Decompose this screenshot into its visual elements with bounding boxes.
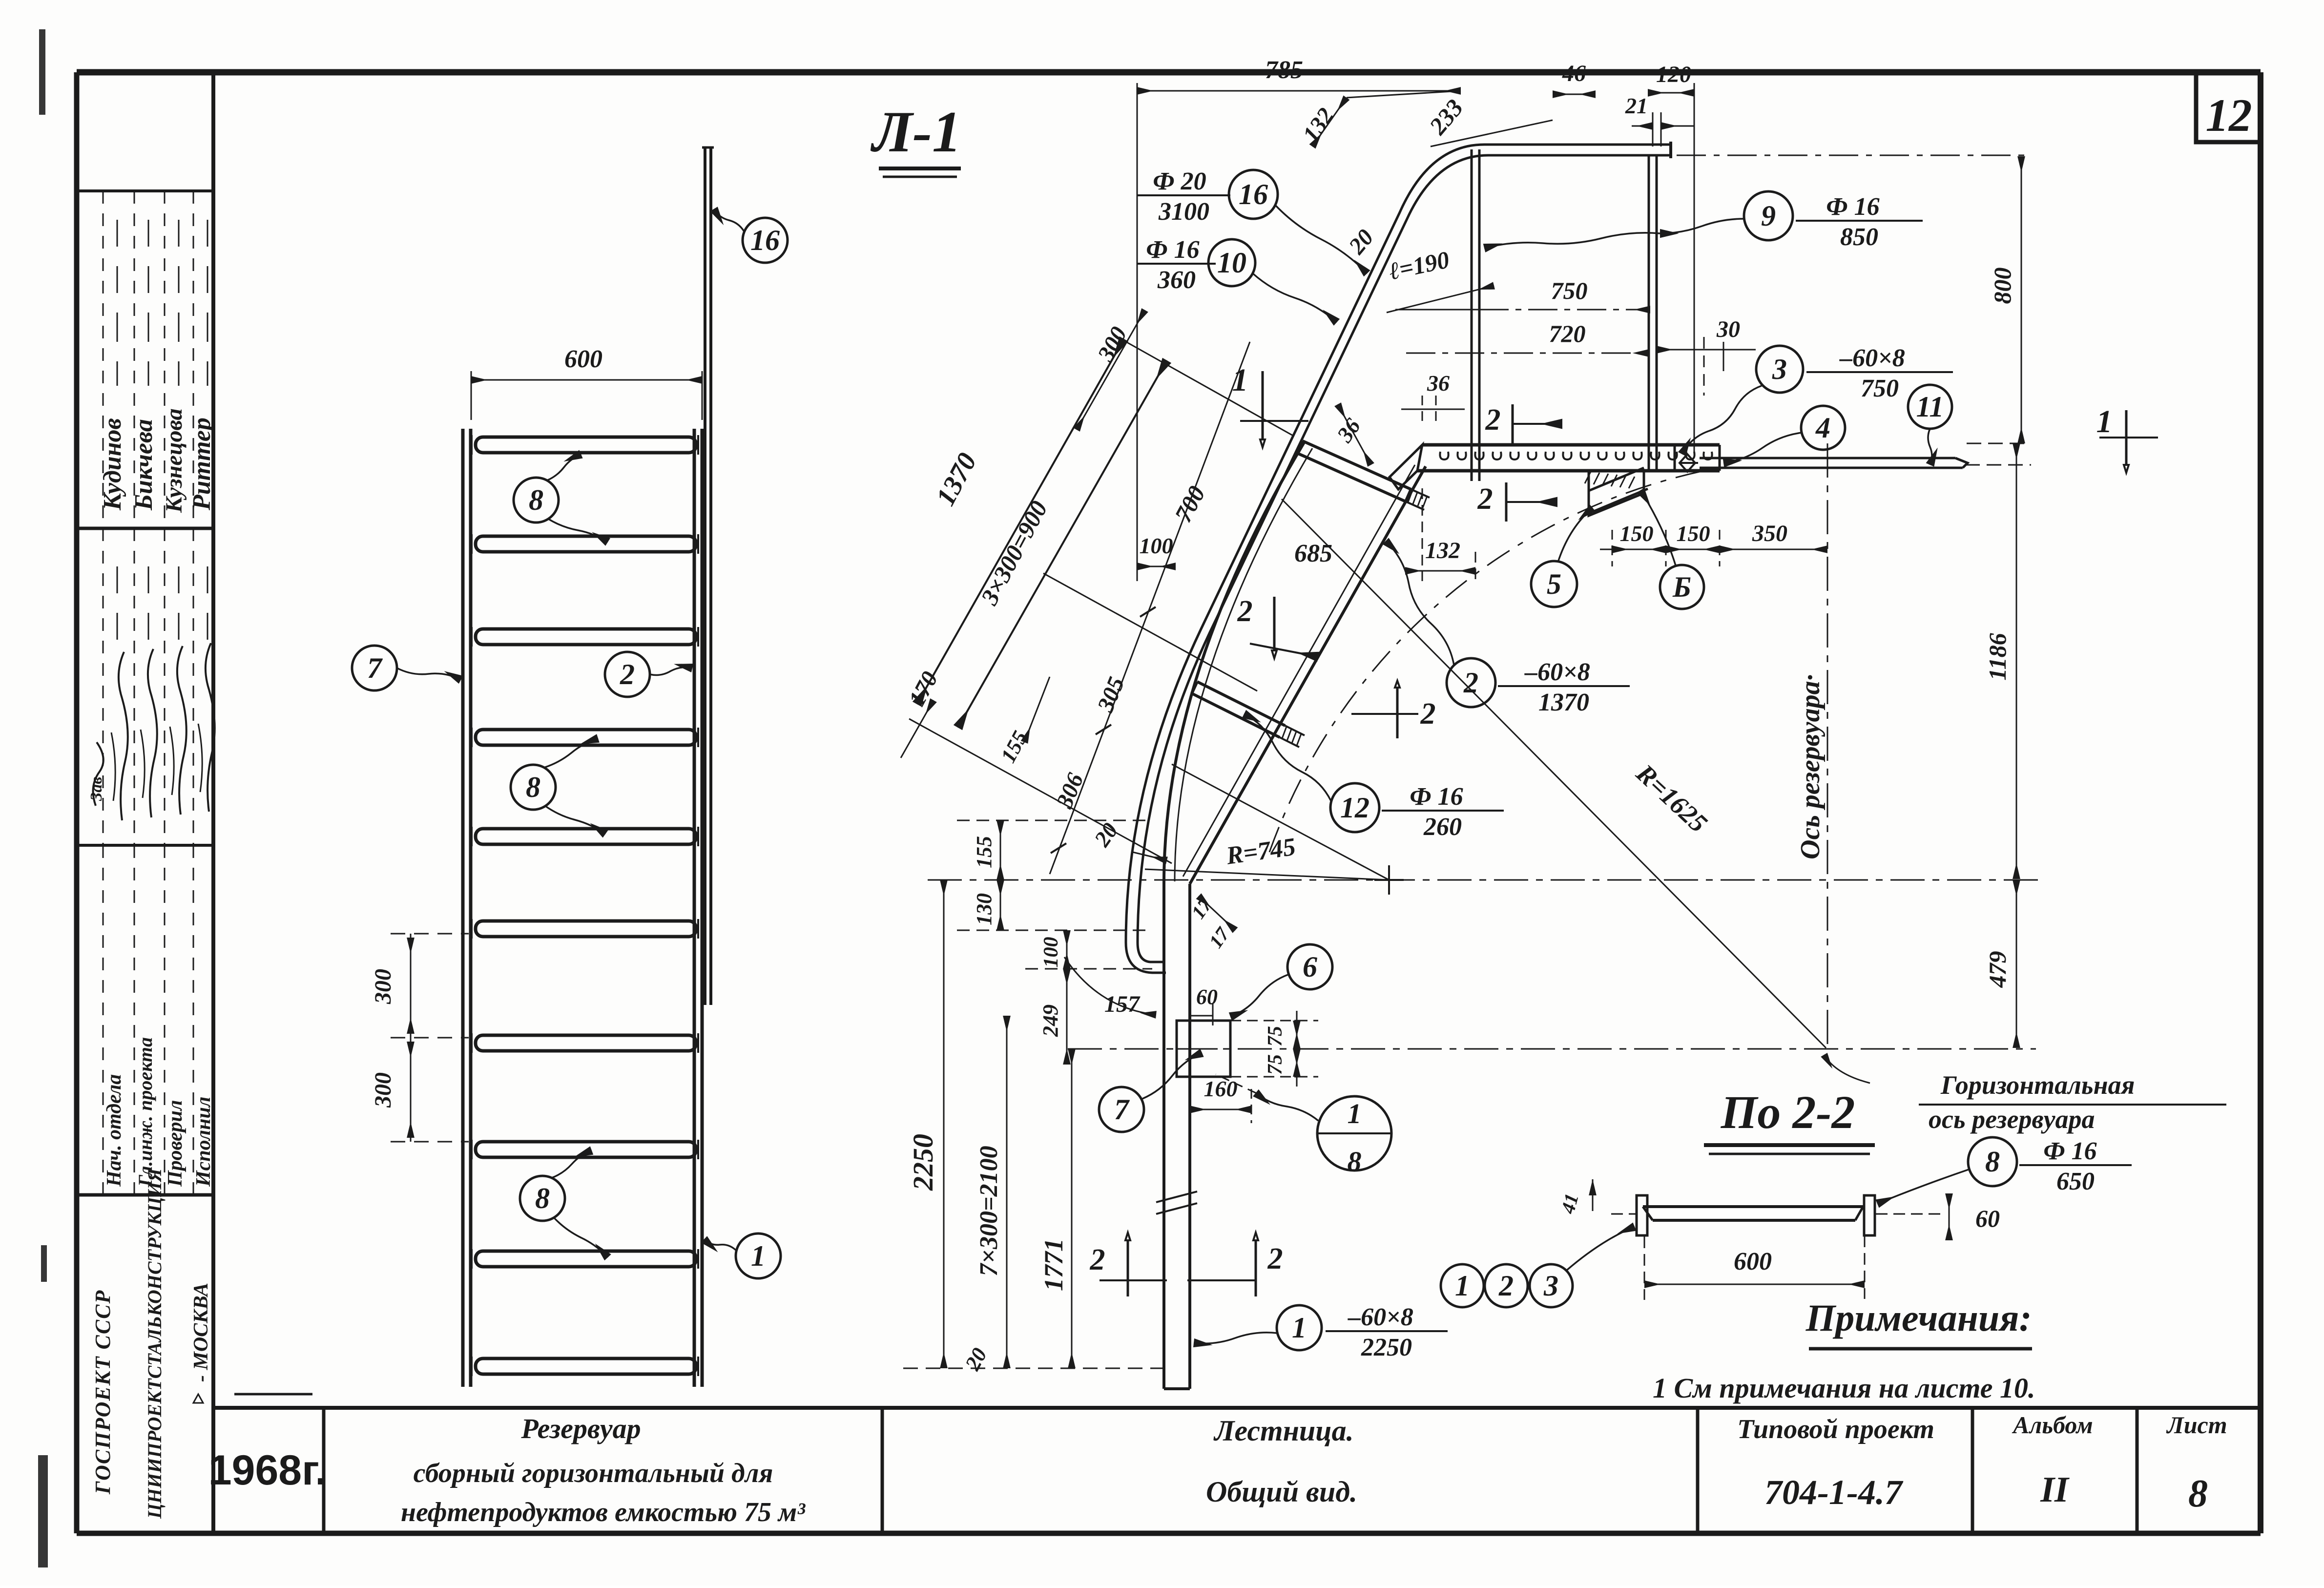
dim 150 150 350: [1600, 549, 1827, 550]
svg-text:Кудинов: Кудинов: [99, 418, 126, 511]
mid tread: [1197, 682, 1285, 726]
ext lines perpendicular: [1116, 336, 1294, 436]
svg-text:ГОСПРОЕКТ СССР: ГОСПРОЕКТ СССР: [91, 1290, 115, 1495]
svg-text:7: 7: [1114, 1093, 1130, 1126]
circle 16 with Ф20/3100: [1138, 194, 1230, 196]
handrail side view: [1126, 145, 1671, 973]
dim 750 (posts): [1479, 309, 1650, 311]
signatures: [119, 652, 128, 820]
weld strip top tread: [1411, 489, 1430, 498]
svg-text:800: 800: [1989, 268, 2016, 304]
dim 155 left: [1000, 820, 1001, 880]
dim 600 section: [1644, 1284, 1865, 1285]
svg-text:600: 600: [1734, 1248, 1772, 1275]
svg-text:Ось резервуара·: Ось резервуара·: [1795, 674, 1826, 859]
gusset under platform (pos5): [1589, 471, 1644, 516]
dim 2250: [943, 880, 945, 1368]
svg-text:–60×8: –60×8: [1839, 344, 1905, 372]
dim 21: [1632, 125, 1653, 127]
chain 700/305/306: [1050, 342, 1250, 874]
dash at bar level: [1965, 464, 2031, 466]
svg-text:12: 12: [1340, 792, 1369, 824]
svg-text:1: 1: [1455, 1270, 1470, 1302]
circle 4: [1801, 406, 1845, 450]
incline stringer (pos2) right edge: [1190, 466, 1426, 884]
svg-text:300: 300: [370, 1072, 396, 1108]
stringer right (front view): [693, 429, 696, 1387]
svg-text:100: 100: [1140, 533, 1173, 558]
svg-text:8: 8: [535, 1182, 550, 1214]
weld strip mid tread: [1285, 726, 1305, 735]
svg-text:2250: 2250: [1361, 1334, 1412, 1361]
R1625 arc: [1269, 470, 1709, 852]
svg-text:704-1-4.7: 704-1-4.7: [1764, 1473, 1904, 1512]
svg-text:Лист: Лист: [2166, 1411, 2227, 1439]
svg-text:120: 120: [1656, 62, 1691, 87]
svg-text:157: 157: [1104, 991, 1141, 1017]
svg-text:150: 150: [1677, 521, 1710, 546]
platform: [1422, 443, 1720, 447]
dim 3x300=900: [958, 360, 1167, 728]
svg-text:8: 8: [1348, 1146, 1362, 1177]
circle 1 bottom with -60x8/2250: [1277, 1305, 1322, 1350]
dim 36 (platform left): [1401, 409, 1465, 410]
dim 100/249: [1066, 930, 1068, 969]
svg-text:2: 2: [1485, 403, 1501, 437]
circle 11: [1908, 385, 1952, 429]
dim 479: [2016, 880, 2017, 1048]
circle 2 (front view stringer): [605, 652, 650, 697]
svg-text:132: 132: [1425, 538, 1460, 564]
svg-text:ось резервуара: ось резервуара: [1929, 1105, 2095, 1134]
dim 300 300 (front view): [410, 934, 412, 1142]
svg-text:1370: 1370: [1538, 689, 1589, 716]
svg-text:Ф 16: Ф 16: [1146, 236, 1199, 264]
circle 8 with Ф16/650: [1968, 1137, 2017, 1186]
svg-text:Альбом: Альбом: [2012, 1411, 2093, 1439]
vertical tank axis: [1827, 443, 1828, 1050]
horizontal tank axis: [928, 879, 2046, 881]
title block: [213, 1406, 2261, 1410]
svg-text:2: 2: [1477, 482, 1493, 516]
circle 12 with Ф16/260: [1330, 783, 1379, 832]
svg-text:нефтепродуктов емкостью 75 м³: нефтепродуктов емкостью 75 м³: [401, 1497, 806, 1527]
svg-text:ЦНИИПРОЕКТСТАЛЬКОНСТРУКЦИЯ: ЦНИИПРОЕКТСТАЛЬКОНСТРУКЦИЯ: [144, 1168, 166, 1519]
svg-text:750: 750: [1551, 277, 1588, 304]
svg-text:750: 750: [1861, 375, 1899, 402]
dim 720: [1406, 353, 1649, 354]
scan specks: [39, 29, 45, 115]
svg-text:Бикчева: Бикчева: [130, 419, 158, 511]
svg-text:8: 8: [529, 484, 543, 516]
svg-text:7: 7: [367, 652, 383, 684]
svg-text:Ф 16: Ф 16: [1410, 783, 1463, 811]
svg-text:4: 4: [1815, 412, 1830, 444]
diamond symbol: [1680, 454, 1695, 472]
svg-text:3: 3: [1772, 353, 1787, 385]
right post: [1648, 155, 1650, 470]
circle 16 (front view): [743, 218, 788, 263]
sheet number box 12: [2196, 75, 2261, 142]
svg-text:2: 2: [620, 658, 635, 690]
svg-text:21: 21: [1625, 93, 1648, 118]
svg-text:Ф 16: Ф 16: [2043, 1137, 2096, 1165]
horizontal axis of bracket: [1068, 1048, 2036, 1050]
svg-text:- МОСКВА: - МОСКВА: [190, 1283, 212, 1382]
svg-text:785: 785: [1265, 56, 1303, 84]
svg-text:260: 260: [1423, 813, 1462, 841]
svg-text:850: 850: [1840, 223, 1878, 251]
circle 7 side: [1099, 1087, 1144, 1132]
rungs (front view): [476, 437, 696, 453]
stringer left (front view): [461, 429, 465, 1387]
svg-text:16: 16: [1239, 178, 1268, 210]
svg-text:сборный горизонтальный для: сборный горизонтальный для: [414, 1458, 773, 1488]
pos11 bar to the right: [1700, 457, 1955, 460]
incline stringer left/inner edge with R745 bend: [1164, 441, 1305, 883]
dim 30: [1657, 349, 1719, 351]
svg-text:1: 1: [1348, 1098, 1362, 1129]
svg-text:Л-1: Л-1: [870, 99, 961, 164]
svg-text:2: 2: [1420, 697, 1436, 731]
R1625 radius line: [1282, 499, 1826, 1048]
svg-text:5: 5: [1547, 568, 1561, 600]
svg-text:36: 36: [1427, 371, 1450, 396]
svg-text:1: 1: [751, 1240, 766, 1272]
circle 8 lower: [520, 1176, 565, 1221]
circle 9 with Ф16/850: [1744, 191, 1793, 240]
svg-text:Кузнецова: Кузнецова: [161, 408, 187, 513]
svg-text:1186: 1186: [1984, 633, 2011, 680]
svg-text:2: 2: [1498, 1270, 1514, 1302]
svg-text:650: 650: [2056, 1168, 2095, 1195]
dim 132 lower left: [1405, 570, 1475, 572]
svg-text:Ф 16: Ф 16: [1826, 193, 1879, 221]
svg-text:2: 2: [1090, 1243, 1105, 1276]
svg-text:Нач. отдела: Нач. отдела: [103, 1074, 125, 1187]
handrail stanchion 16 (front view): [704, 146, 706, 1005]
svg-text:Примечания:: Примечания:: [1805, 1296, 2032, 1339]
svg-text:Общий вид.: Общий вид.: [1206, 1476, 1357, 1508]
svg-text:10: 10: [1217, 247, 1246, 279]
circle 8 middle: [511, 765, 556, 810]
svg-text:3: 3: [1543, 1270, 1558, 1302]
svg-text:Б: Б: [1672, 571, 1691, 603]
bracket pos 7: [1177, 1021, 1230, 1077]
svg-text:Риттер: Риттер: [188, 418, 216, 511]
svg-text:600: 600: [564, 345, 602, 373]
svg-text:Лестница.: Лестница.: [1213, 1415, 1353, 1447]
svg-text:720: 720: [1549, 320, 1586, 347]
R745 center and radius lines: [1388, 865, 1390, 895]
svg-text:249: 249: [1038, 1004, 1062, 1037]
dim 7x300=2100: [1006, 1016, 1008, 1368]
svg-text:1 См примечания на листе: 1 См примечания на листе 10.: [1653, 1372, 2035, 1404]
svg-text:2: 2: [1463, 667, 1478, 699]
svg-text:75: 75: [1264, 1054, 1286, 1075]
dim 785: [1137, 90, 1461, 92]
left stamp column: [211, 72, 215, 1533]
svg-text:11: 11: [1916, 391, 1944, 423]
circle 5: [1531, 561, 1577, 607]
svg-text:1771: 1771: [1039, 1238, 1068, 1291]
svg-text:Гл.инж. проекта: Гл.инж. проекта: [134, 1037, 156, 1187]
dim 1370: [917, 339, 1124, 704]
circles 1 2 3 row: [1441, 1264, 1484, 1307]
vertical leg stringer (pos1): [1162, 883, 1165, 1389]
svg-text:Ф 20: Ф 20: [1153, 167, 1206, 195]
leg break marks: [1156, 1191, 1197, 1202]
svg-text:2: 2: [1267, 1242, 1283, 1275]
circle 1 (front view bottom): [736, 1233, 781, 1278]
svg-text:60: 60: [1975, 1205, 2000, 1232]
svg-text:360: 360: [1157, 266, 1196, 294]
dim 60 bracket: [1190, 1015, 1213, 1017]
svg-text:6: 6: [1303, 951, 1317, 983]
svg-text:Резервуар: Резервуар: [520, 1413, 641, 1444]
dim 120: [1648, 92, 1694, 94]
svg-text:160: 160: [1204, 1076, 1238, 1101]
left post: [1471, 149, 1473, 481]
tread bar section: [1643, 1205, 1863, 1208]
dim 100 small: [1137, 566, 1176, 567]
svg-text:Зав: Зав: [87, 777, 105, 802]
dim 60 section: [1949, 1193, 1950, 1240]
dim 1771: [1071, 1049, 1073, 1368]
svg-text:1: 1: [1292, 1312, 1307, 1344]
dim 600 (front view top): [471, 379, 702, 381]
svg-text:2: 2: [1237, 595, 1253, 628]
svg-text:300: 300: [370, 969, 396, 1004]
platform right connector plate: [1674, 445, 1676, 471]
top tread: [1303, 441, 1411, 489]
circle 8 upper: [514, 478, 559, 522]
border frame: [77, 69, 2261, 76]
svg-text:479: 479: [1984, 951, 2011, 988]
circle 6: [1287, 944, 1332, 989]
incline stringer inner thickness line: [1183, 465, 1415, 877]
elbow leader lines: [1347, 91, 1461, 98]
svg-text:150: 150: [1620, 521, 1654, 546]
svg-text:130: 130: [972, 893, 996, 925]
svg-text:60: 60: [1196, 985, 1218, 1009]
circle Б: [1660, 565, 1704, 609]
svg-text:8: 8: [2188, 1472, 2208, 1515]
dim 800: [2021, 156, 2022, 443]
svg-text:30: 30: [1716, 316, 1740, 342]
dim 75 75: [1296, 1011, 1298, 1087]
svg-text:Горизонтальная: Горизонтальная: [1940, 1070, 2135, 1100]
svg-text:1968г.: 1968г.: [208, 1447, 327, 1494]
svg-text:Типовой проект: Типовой проект: [1737, 1414, 1934, 1444]
svg-text:7×300=2100: 7×300=2100: [975, 1146, 1003, 1276]
svg-text:1: 1: [2096, 404, 2113, 439]
svg-text:–60×8: –60×8: [1348, 1303, 1413, 1331]
svg-text:1: 1: [1232, 362, 1248, 398]
circle 10 with Ф16/360: [1138, 263, 1216, 265]
svg-text:8: 8: [1985, 1146, 2000, 1178]
svg-text:75: 75: [1264, 1026, 1286, 1046]
platform tread hatch: [1440, 452, 1448, 460]
circle 3 with -60x8/750: [1756, 346, 1803, 393]
dim 130 left: [1000, 880, 1001, 930]
svg-text:350: 350: [1752, 521, 1787, 546]
svg-text:Исполнил: Исполнил: [192, 1097, 215, 1187]
node circle 1/8: [1317, 1096, 1391, 1170]
dim 1186: [2016, 443, 2017, 879]
svg-text:8: 8: [526, 771, 540, 803]
svg-text:9: 9: [1761, 200, 1776, 232]
svg-text:–60×8: –60×8: [1524, 658, 1590, 686]
svg-text:12: 12: [2206, 89, 2252, 141]
svg-text:3100: 3100: [1158, 198, 1209, 226]
circle 2 with -60x8/1370: [1447, 658, 1495, 707]
left edge inner line: [1175, 448, 1312, 881]
svg-text:16: 16: [750, 224, 780, 256]
svg-text:155: 155: [972, 836, 996, 868]
svg-text:II: II: [2040, 1470, 2070, 1510]
svg-text:2250: 2250: [907, 1134, 939, 1191]
svg-text:Проверил: Проверил: [164, 1100, 187, 1187]
svg-text:46: 46: [1562, 61, 1586, 86]
dim 46: [1553, 94, 1596, 95]
dim 160: [1190, 1109, 1251, 1110]
svg-text:100: 100: [1040, 937, 1062, 968]
circle 7 (front view left): [352, 646, 397, 690]
svg-text:По 2-2: По 2-2: [1721, 1086, 1855, 1138]
